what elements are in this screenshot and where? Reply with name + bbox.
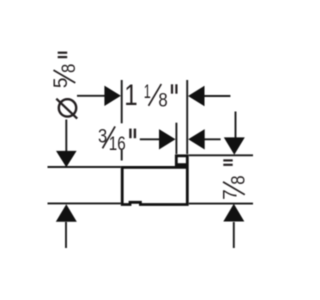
wire: left up-arrow tail bbox=[65, 222, 67, 248]
wire: diameter symbol connector bbox=[65, 120, 67, 152]
arrow up-pointing (right dimension) bbox=[223, 204, 244, 222]
value label 5/8 inch rotated bbox=[51, 53, 80, 88]
arrow right-pointing (3/16 dimension) bbox=[159, 129, 176, 149]
value label 1 1/8 inch: inch marks bbox=[171, 84, 173, 93]
wire: top-right extension line bbox=[189, 154, 253, 156]
svg-text:1: 1 bbox=[144, 82, 151, 103]
svg-text:16: 16 bbox=[109, 134, 126, 155]
part outline: hollow tab on top right bbox=[176, 156, 187, 165]
inch marks bbox=[223, 164, 232, 166]
inch marks bbox=[58, 56, 67, 58]
wire: left extension line lower segment bbox=[121, 150, 123, 161]
arrow down-pointing (left dimension) bbox=[56, 151, 77, 167]
wire: bottom-left construction line bbox=[48, 202, 121, 204]
wire: bottom-right extension line bbox=[189, 203, 253, 205]
diameter symbol: circle bbox=[59, 99, 76, 116]
wire: left extension line upper segment bbox=[121, 80, 123, 123]
wire: 3/16 dimension right tail bbox=[204, 138, 221, 140]
wire: 3/16 left extension line bbox=[175, 123, 177, 154]
fraction slash bbox=[54, 70, 76, 83]
arrow down-pointing (right dimension) bbox=[224, 137, 245, 154]
svg-text:1: 1 bbox=[124, 79, 137, 112]
wire: top-left construction line bbox=[48, 166, 121, 168]
diameter symbol: slash bbox=[56, 99, 77, 119]
wire: right up-arrow tail bbox=[233, 222, 235, 248]
wire: 3/16 dimension left lead bbox=[140, 138, 160, 140]
fraction slash bbox=[223, 182, 245, 195]
value label 3/16 inch: inch marks bbox=[129, 129, 131, 139]
value label 3/16 inch: fraction slash bbox=[103, 126, 116, 148]
arrow left-pointing (3/16 dimension) bbox=[188, 129, 205, 149]
wire: top dimension left tail bbox=[77, 95, 105, 97]
svg-text:8: 8 bbox=[158, 90, 167, 111]
svg-text:8: 8 bbox=[229, 176, 250, 185]
arrow right-pointing (top dimension left) bbox=[104, 86, 121, 106]
wire: top dimension right tail bbox=[204, 95, 230, 97]
value label 1 1/8 inch: fraction slash bbox=[149, 84, 162, 106]
wire: right down-arrow tail bbox=[235, 112, 237, 138]
svg-text:8: 8 bbox=[59, 64, 80, 73]
arrow left-pointing (top dimension right) bbox=[188, 86, 205, 106]
wire: right extension line bbox=[186, 80, 188, 154]
value label 7/8 inch rotated bbox=[220, 160, 249, 200]
part outline: main body rectangle with bottom notch bbox=[122, 167, 187, 204]
arrow up-pointing (left dimension) bbox=[56, 204, 77, 222]
